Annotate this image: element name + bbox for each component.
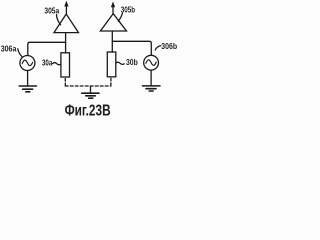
svg-text:30a: 30a xyxy=(42,58,53,67)
svg-text:305b: 305b xyxy=(121,6,135,15)
svg-text:Фиг.23В: Фиг.23В xyxy=(65,103,111,120)
svg-text:306a: 306a xyxy=(1,45,17,54)
svg-text:305a: 305a xyxy=(44,7,59,16)
svg-text:306b: 306b xyxy=(161,42,177,51)
svg-text:30b: 30b xyxy=(126,58,138,67)
